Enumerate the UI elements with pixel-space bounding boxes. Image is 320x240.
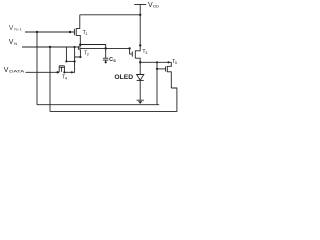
node dot right of T4	[71, 71, 73, 73]
wire Vn-1 row line	[25, 31, 74, 33]
svg-text:3: 3	[145, 51, 147, 55]
node A junction (T1 source / T2 drain)	[79, 44, 81, 46]
wire Vn row line	[22, 46, 75, 48]
svg-text:5: 5	[175, 61, 177, 65]
svg-text:N: N	[14, 41, 17, 46]
node dot on vertical at y=61.4	[74, 60, 76, 62]
wire T1 drain to Vdd rail	[80, 14, 140, 16]
power Vdd symbol	[134, 5, 146, 46]
node dot at T5 gate lead	[156, 68, 158, 70]
wire T5 gate column	[156, 62, 158, 104]
node dot at T4 drain on wire	[63, 71, 65, 73]
svg-text:2: 2	[87, 53, 89, 57]
svg-text:1: 1	[85, 32, 87, 36]
wire Vn vertical bus drop	[49, 47, 51, 111]
svg-text:V: V	[9, 39, 14, 46]
wire Vdata row line	[26, 71, 60, 73]
svg-text:OLED: OLED	[114, 74, 133, 81]
wire node A horizontal to capacitor column	[80, 45, 105, 49]
transistor T4	[59, 66, 64, 73]
wire T5 gate lead	[157, 68, 166, 70]
wire gate link to T4	[66, 60, 74, 62]
wire node A to T3 gate	[80, 47, 130, 49]
svg-text:V: V	[9, 25, 14, 32]
node junction at capacitor top	[105, 47, 107, 49]
node dot at T3 gate bend	[128, 47, 130, 49]
node junction on Vdata at T4 source	[56, 71, 58, 73]
node junction at OLED anode	[139, 61, 141, 63]
node dot on anode line at x=157	[156, 61, 158, 63]
node dot at (66.4,61.4)	[65, 60, 67, 62]
wire Vn branch down to T4	[65, 47, 67, 61]
ground	[137, 100, 144, 104]
node junction Vdd rail	[139, 14, 141, 16]
node terminal dot at T2 gate	[74, 46, 76, 48]
wire T2 gate net vertical	[74, 47, 76, 57]
node terminal dot at T1 gate	[69, 31, 71, 33]
svg-text:S: S	[113, 59, 116, 63]
wire Vn-1 vertical bus drop	[36, 32, 38, 105]
transistor T2	[75, 45, 81, 57]
label Vn-1	[4, 2, 177, 81]
node junction on Vn-1 at x=37	[36, 31, 38, 33]
transistor T1	[74, 15, 80, 45]
node dot above T3 drain	[139, 44, 141, 46]
transistor T3	[130, 45, 141, 62]
node dot at Cs bottom stub	[105, 61, 107, 63]
node junction on Vn at x=50	[49, 46, 51, 48]
wire T2 source to T4 drain	[64, 57, 80, 72]
node dot on anode line at x=168.5	[167, 61, 169, 63]
svg-text:DD: DD	[153, 4, 159, 9]
svg-text:V: V	[4, 67, 9, 74]
svg-text:4: 4	[65, 77, 67, 81]
wire anode line to T5	[140, 61, 171, 63]
capacitor Cs	[103, 48, 108, 62]
wire bottom bus (Vn net)	[50, 88, 177, 111]
node dot at T2 source	[79, 56, 81, 58]
diode OLED	[137, 62, 144, 100]
svg-text:N-1: N-1	[14, 27, 23, 32]
svg-text:DATA: DATA	[9, 69, 24, 74]
wire bottom bus (Vn-1 net)	[37, 104, 159, 106]
transistor T5	[166, 62, 172, 88]
